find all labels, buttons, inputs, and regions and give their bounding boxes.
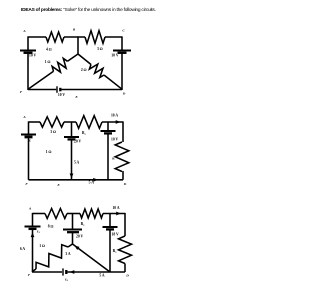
svg-text:R3: R3 <box>113 249 118 254</box>
svg-text:3 Ω: 3 Ω <box>50 130 56 134</box>
svg-text:3 A: 3 A <box>65 252 71 256</box>
svg-text:D: D <box>123 182 127 186</box>
svg-text:5 A: 5 A <box>99 273 105 277</box>
svg-text:1 Ω: 1 Ω <box>46 150 52 154</box>
svg-text:A: A <box>22 115 26 119</box>
svg-text:5 A: 5 A <box>89 181 95 185</box>
svg-text:10 V: 10 V <box>29 53 37 57</box>
svg-text:E: E <box>56 183 60 187</box>
svg-text:10 A: 10 A <box>112 206 119 210</box>
svg-text:F: F <box>25 182 28 186</box>
svg-text:10 A: 10 A <box>111 113 118 117</box>
svg-text:5 A: 5 A <box>74 161 80 165</box>
svg-text:2 Ω: 2 Ω <box>81 68 87 72</box>
svg-text:ε: ε <box>29 139 31 143</box>
svg-text:8 Ω: 8 Ω <box>48 224 54 228</box>
svg-text:B: B <box>72 28 76 32</box>
svg-text:20 V: 20 V <box>76 235 84 239</box>
svg-text:F: F <box>28 273 31 277</box>
svg-text:6 A: 6 A <box>20 247 26 251</box>
svg-text:18 V: 18 V <box>112 233 120 237</box>
svg-text:10 V: 10 V <box>58 93 66 97</box>
svg-text:F: F <box>20 90 23 94</box>
svg-text:E: E <box>74 95 78 99</box>
svg-text:R2: R2 <box>82 131 86 136</box>
svg-text:R2: R2 <box>81 222 85 227</box>
svg-text:4 Ω: 4 Ω <box>46 48 52 52</box>
svg-text:10 V: 10 V <box>111 54 119 58</box>
svg-text:ε3: ε3 <box>65 277 69 282</box>
svg-text:1 Ω: 1 Ω <box>39 244 45 248</box>
svg-text:C: C <box>122 29 125 33</box>
svg-text:20 V: 20 V <box>74 140 82 144</box>
svg-text:10 V: 10 V <box>111 138 119 142</box>
svg-text:ε1: ε1 <box>37 229 40 234</box>
svg-text:3 Ω: 3 Ω <box>97 47 103 51</box>
svg-text:D: D <box>125 273 129 277</box>
svg-text:A: A <box>22 29 26 33</box>
svg-text:A: A <box>28 207 32 211</box>
svg-text:1 Ω: 1 Ω <box>45 60 51 64</box>
svg-text:D: D <box>122 92 126 96</box>
